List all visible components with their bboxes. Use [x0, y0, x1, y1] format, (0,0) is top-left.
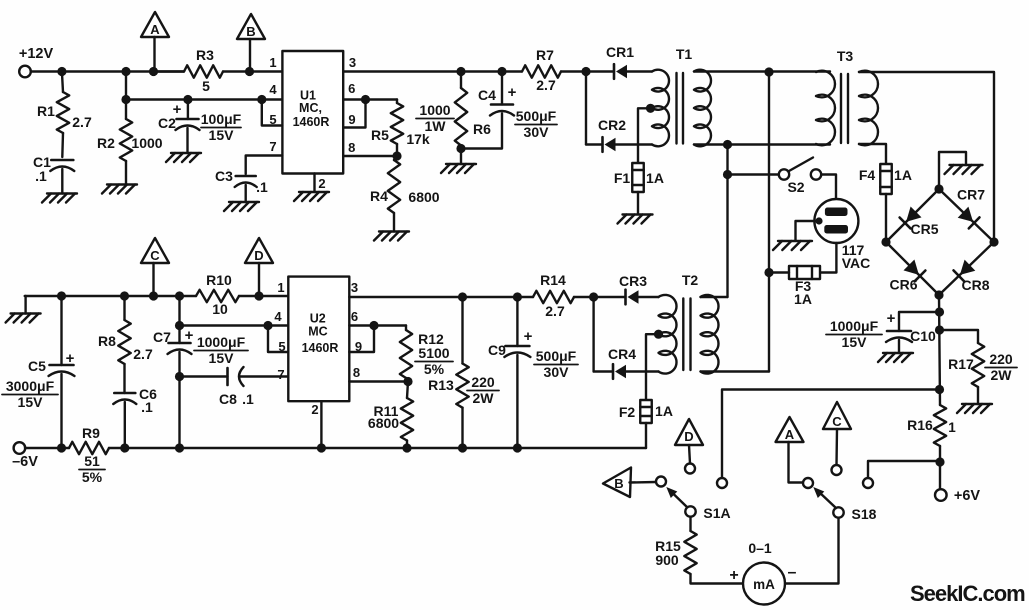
- connector C bottom: [823, 402, 851, 465]
- svg-text:–6V: –6V: [12, 454, 38, 470]
- fuse F1 1A: [614, 163, 664, 214]
- svg-text:5%: 5%: [424, 361, 445, 377]
- node A: [149, 67, 158, 76]
- svg-text:2.7: 2.7: [545, 303, 565, 319]
- U1 pin 3 label: [349, 55, 356, 70]
- node C8 tee: [175, 372, 184, 381]
- connector A bottom: [776, 417, 804, 483]
- svg-text:2.7: 2.7: [72, 114, 92, 130]
- capacitor C7: [153, 327, 248, 448]
- wire pin6: [343, 98, 397, 100]
- meter mA 0-1: [729, 540, 796, 605]
- svg-text:1000: 1000: [131, 135, 162, 151]
- S18 throw C: [832, 465, 842, 475]
- svg-text:1A: 1A: [655, 403, 673, 419]
- diode CR8: [954, 260, 990, 293]
- ground top-left lower: [6, 296, 41, 323]
- svg-text:+: +: [185, 327, 194, 344]
- node C4 top: [497, 67, 506, 76]
- node C2: [183, 95, 192, 104]
- capacitor C8: [219, 367, 288, 407]
- U1 pin 9 loop: [343, 100, 365, 128]
- svg-text:R7: R7: [536, 47, 554, 63]
- U2 pin 7 label: [277, 367, 284, 382]
- node top rail tee: [764, 67, 773, 76]
- svg-text:A: A: [785, 427, 795, 442]
- svg-text:6: 6: [348, 81, 355, 96]
- svg-text:C3: C3: [215, 168, 233, 184]
- S1A wiper: [666, 487, 689, 509]
- svg-text:5: 5: [269, 112, 276, 127]
- 117 VAC plug: [814, 199, 870, 271]
- svg-text:–: –: [788, 564, 797, 581]
- U1 pin 1 label: [269, 55, 276, 70]
- U1 pin 5 loop: [257, 95, 282, 127]
- svg-text:5: 5: [202, 78, 210, 94]
- svg-text:2.7: 2.7: [133, 346, 153, 362]
- svg-text:51: 51: [84, 453, 100, 469]
- svg-text:.1: .1: [35, 168, 47, 184]
- connector B bottom: [603, 468, 656, 498]
- svg-text:220: 220: [471, 374, 495, 390]
- svg-text:1460R: 1460R: [293, 115, 330, 129]
- transformer T2 secondary: [701, 295, 770, 374]
- diode CR4: [594, 346, 659, 379]
- node C10 tee: [935, 307, 944, 316]
- svg-text:1A: 1A: [894, 167, 912, 183]
- svg-text:CR6: CR6: [889, 277, 917, 293]
- svg-text:+: +: [508, 84, 517, 101]
- transformer T3 core: [841, 74, 848, 143]
- wire bridge bottom column: [939, 295, 940, 462]
- wire lower pin7: [180, 375, 228, 377]
- U1 pin 8 label: [348, 140, 355, 155]
- capacitor C5: [2, 296, 75, 448]
- resistor R8: [98, 296, 153, 364]
- wire T3 sec bottom to F4: [859, 144, 886, 164]
- node T2 tap: [646, 330, 663, 400]
- svg-text:+: +: [524, 328, 533, 345]
- U2 pin 3 label: [351, 280, 358, 295]
- svg-text:9: 9: [355, 339, 362, 354]
- transformer T3 primary: [816, 48, 853, 145]
- resistor R17: [940, 330, 1018, 404]
- transformer T1 core: [677, 73, 684, 144]
- svg-text:1000: 1000: [419, 102, 450, 118]
- svg-text:10: 10: [212, 301, 228, 317]
- svg-text:C: C: [150, 248, 160, 263]
- node C9 top: [513, 292, 522, 301]
- node R6 bottom: [456, 144, 465, 153]
- svg-text:2W: 2W: [991, 367, 1013, 383]
- svg-text:R10: R10: [206, 272, 232, 288]
- svg-text:D: D: [254, 248, 263, 263]
- node long wire tee: [935, 385, 944, 394]
- resistor R15: [655, 517, 743, 584]
- svg-text:+12V: +12V: [19, 46, 54, 62]
- svg-text:R6: R6: [473, 121, 491, 137]
- node R2 top: [121, 67, 130, 76]
- svg-text:C9: C9: [488, 342, 506, 358]
- svg-text:1: 1: [269, 55, 276, 70]
- ground 117VAC: [773, 241, 812, 250]
- wire lower pin6: [349, 324, 406, 326]
- node R17 tee: [935, 325, 944, 334]
- resistor R3: [157, 47, 223, 94]
- svg-text:4: 4: [269, 82, 277, 97]
- wire lower rail: [25, 295, 289, 297]
- S1A throw from bridge wire: [717, 478, 727, 488]
- node R7/CR1: [581, 67, 590, 76]
- svg-text:220: 220: [989, 351, 1013, 367]
- connector D bottom: [675, 419, 703, 464]
- svg-text:1000μF: 1000μF: [197, 334, 246, 350]
- ground R2: [102, 185, 137, 194]
- node bus C9: [513, 443, 522, 452]
- svg-text:2: 2: [318, 176, 325, 191]
- wire 117VAC riser: [768, 72, 770, 372]
- U2 pin 1 label: [277, 280, 284, 295]
- svg-text:1000μF: 1000μF: [830, 318, 879, 334]
- ground R6: [441, 164, 476, 173]
- wire CR4 drop: [592, 297, 594, 372]
- wire bridge top to ground: [939, 152, 966, 189]
- resistor R1: [37, 72, 92, 158]
- node bus R11: [402, 443, 411, 452]
- svg-text:15V: 15V: [209, 127, 235, 143]
- wire bottom bus: [25, 447, 646, 449]
- svg-text:3: 3: [349, 55, 356, 70]
- wire plug to F3: [820, 243, 836, 273]
- U1 pin 6 label: [348, 81, 355, 96]
- svg-text:D: D: [684, 429, 693, 444]
- ground bridge: [945, 165, 983, 174]
- svg-text:VAC: VAC: [842, 255, 871, 271]
- wire meter to S18: [785, 518, 839, 584]
- svg-text:+: +: [887, 310, 896, 327]
- svg-text:+: +: [66, 350, 75, 367]
- U1 pin 2: [315, 174, 326, 193]
- svg-text:R8: R8: [98, 333, 116, 349]
- svg-text:5100: 5100: [418, 345, 449, 361]
- node C: [149, 291, 158, 300]
- node bus C5: [57, 443, 66, 452]
- svg-text:500μF: 500μF: [516, 108, 557, 124]
- svg-text:S2: S2: [787, 179, 804, 195]
- capacitor C4: [461, 72, 557, 149]
- wire lower pin3 rail: [349, 296, 533, 298]
- svg-text:C7: C7: [153, 329, 171, 345]
- svg-text:1A: 1A: [794, 291, 812, 307]
- svg-text:R14: R14: [540, 272, 566, 288]
- diode CR7: [957, 187, 985, 229]
- svg-text:R13: R13: [428, 377, 454, 393]
- ground R4: [374, 232, 409, 241]
- diode CR3: [594, 273, 659, 304]
- resistor R10: [196, 272, 239, 317]
- svg-text:500μF: 500μF: [536, 348, 577, 364]
- svg-text:R1: R1: [37, 103, 55, 119]
- node +12V/R1: [57, 67, 66, 76]
- wire pin4 rail: [126, 98, 282, 100]
- ground C2: [166, 153, 201, 162]
- U2 pin 2: [311, 401, 321, 448]
- svg-text:MC,: MC,: [299, 101, 322, 115]
- svg-text:6800: 6800: [408, 189, 439, 205]
- svg-text:R2: R2: [97, 135, 115, 151]
- resistor R14: [533, 272, 594, 319]
- svg-text:T3: T3: [837, 48, 854, 64]
- ground U1 pin 2: [294, 192, 329, 201]
- node bus U2 pin2: [317, 443, 326, 452]
- fuse F3 1A: [769, 266, 820, 307]
- svg-text:CR2: CR2: [598, 117, 626, 133]
- svg-text:R3: R3: [196, 47, 214, 63]
- S1A throw B: [656, 477, 666, 487]
- wire C7 column: [178, 296, 180, 343]
- ground R17: [957, 404, 992, 413]
- resistor R2: [97, 119, 163, 185]
- node bridge top: [934, 184, 943, 193]
- node lower pin6: [369, 321, 378, 330]
- node C5 top: [57, 291, 66, 300]
- svg-text:R17: R17: [948, 356, 974, 372]
- ground F1: [618, 215, 653, 224]
- wire to S18 right throw: [868, 461, 940, 478]
- U2 pin 4 label: [274, 309, 282, 324]
- svg-text:CR7: CR7: [957, 187, 985, 203]
- svg-text:6800: 6800: [368, 415, 399, 431]
- svg-text:SeekIC.com: SeekIC.com: [910, 581, 1025, 606]
- node F3: [764, 268, 773, 277]
- transformer T2 core: [683, 299, 690, 371]
- S18 wiper: [813, 487, 836, 508]
- svg-text:0–1: 0–1: [748, 540, 772, 556]
- node D: [254, 291, 263, 300]
- ground C3: [224, 202, 259, 211]
- wire T1 sec to T2: [726, 145, 728, 298]
- svg-text:C: C: [832, 414, 842, 429]
- resistor R13: [428, 297, 499, 448]
- diode CR5: [900, 207, 939, 238]
- wire S2 to plug: [821, 175, 836, 200]
- transformer T2 primary: [659, 272, 699, 374]
- S18 throw A: [803, 478, 813, 488]
- transformer T3 secondary: [859, 71, 878, 146]
- svg-text:2W: 2W: [473, 390, 495, 406]
- node T1 tap: [638, 104, 655, 163]
- svg-text:MC: MC: [308, 325, 327, 339]
- diode CR2: [586, 117, 652, 152]
- svg-text:R4: R4: [370, 188, 388, 204]
- svg-text:.1: .1: [242, 391, 254, 407]
- node bridge bottom: [934, 290, 943, 299]
- svg-text:1460R: 1460R: [302, 341, 339, 355]
- U2 pin 6 label: [351, 309, 358, 324]
- wire R2 drop: [125, 72, 127, 120]
- svg-text:3000μF: 3000μF: [6, 378, 55, 394]
- node pin6: [361, 95, 370, 104]
- svg-text:1: 1: [277, 280, 284, 295]
- fuse F4 1A: [859, 164, 912, 242]
- -6V terminal: [12, 442, 38, 470]
- connector D: [245, 238, 273, 296]
- svg-text:U2: U2: [310, 312, 326, 326]
- S18 throw +6V: [863, 478, 873, 488]
- transformer T1 primary: [652, 46, 692, 146]
- node bus R13: [458, 443, 467, 452]
- fuse F2 1A: [619, 400, 673, 448]
- op-amp U2 MC1460R: [288, 277, 349, 402]
- resistor R6: [416, 72, 491, 165]
- resistor R11: [368, 382, 413, 449]
- svg-text:C5: C5: [28, 358, 46, 374]
- wire lower pin8: [349, 380, 408, 382]
- svg-text:B: B: [614, 476, 623, 491]
- svg-text:CR3: CR3: [619, 273, 647, 289]
- node R13 top: [458, 292, 467, 301]
- node lower pin8/R12/R11: [403, 377, 412, 386]
- svg-text:3: 3: [351, 280, 358, 295]
- capacitor C2: [158, 100, 242, 154]
- svg-text:8: 8: [353, 365, 360, 380]
- node R6 top: [456, 67, 465, 76]
- svg-text:2: 2: [311, 402, 318, 417]
- U2 pin 5 loop: [263, 321, 288, 354]
- +12V input terminal: [19, 46, 54, 77]
- capacitor C10: [826, 310, 940, 353]
- svg-text:C10: C10: [910, 328, 936, 344]
- U1 pin 7: [246, 139, 283, 174]
- svg-text:F4: F4: [859, 167, 876, 183]
- U1 pin 4 label: [269, 82, 277, 97]
- svg-text:900: 900: [655, 552, 679, 568]
- resistor R12: [400, 326, 453, 382]
- S18 pole: [833, 506, 876, 522]
- diode CR6: [889, 260, 925, 293]
- capacitor C6: [113, 364, 157, 448]
- svg-text:2.7: 2.7: [536, 77, 556, 93]
- watermark: [910, 581, 1025, 606]
- svg-text:5%: 5%: [82, 469, 103, 485]
- S1A pole: [685, 505, 730, 521]
- wire CR2 drop: [585, 72, 587, 145]
- resistor R5: [371, 100, 430, 157]
- wire pin3 rail: [343, 70, 522, 72]
- wire T3 sec top to right rail: [859, 72, 994, 242]
- node bus C7: [175, 443, 184, 452]
- capacitor C9: [488, 297, 578, 448]
- svg-text:7: 7: [269, 139, 276, 154]
- wire pin8: [343, 155, 397, 157]
- op-amp U1 MC1460R: [282, 51, 343, 174]
- node B: [245, 67, 254, 76]
- wire plug to ground: [796, 221, 820, 240]
- svg-text:7: 7: [277, 367, 284, 382]
- svg-text:CR8: CR8: [961, 277, 989, 293]
- svg-text:5: 5: [278, 339, 285, 354]
- wire +12V rail: [31, 70, 283, 72]
- node bus R8: [120, 443, 129, 452]
- node pin4 tee lower: [175, 321, 184, 330]
- node pin8/R5/R4: [392, 151, 401, 160]
- wire bridge arms: [886, 189, 994, 295]
- svg-text:1A: 1A: [646, 170, 664, 186]
- node R8 top: [120, 291, 129, 300]
- node R16 bottom: [935, 457, 944, 466]
- switch S2: [779, 158, 821, 196]
- svg-text:F2: F2: [619, 404, 636, 420]
- svg-text:A: A: [150, 22, 160, 37]
- node bridge right: [989, 237, 998, 246]
- wire lower pin4 rail: [180, 324, 289, 326]
- svg-text:4: 4: [274, 309, 282, 324]
- node pin4 rail tee: [121, 95, 130, 104]
- svg-text:R5: R5: [371, 127, 389, 143]
- svg-text:9: 9: [348, 112, 355, 127]
- svg-text:CR1: CR1: [606, 44, 634, 60]
- resistor R16: [907, 417, 956, 435]
- S1A throw D: [685, 464, 695, 474]
- connector B: [237, 14, 265, 72]
- wire to S2: [728, 173, 779, 175]
- svg-text:15V: 15V: [842, 334, 868, 350]
- svg-text:.1: .1: [141, 399, 153, 415]
- svg-text:30V: 30V: [524, 124, 550, 140]
- connector C: [141, 238, 169, 296]
- transformer T1 secondary: [694, 70, 830, 147]
- svg-text:C4: C4: [478, 87, 496, 103]
- resistor R9: [69, 425, 109, 485]
- ground C1: [42, 194, 77, 203]
- svg-text:30V: 30V: [544, 364, 570, 380]
- svg-text:8: 8: [348, 140, 355, 155]
- resistor R4: [370, 156, 440, 232]
- svg-text:S18: S18: [852, 506, 877, 522]
- svg-text:6: 6: [351, 309, 358, 324]
- svg-text:S1A: S1A: [703, 505, 730, 521]
- svg-text:.1: .1: [256, 179, 268, 195]
- wire to S1A: [722, 390, 940, 479]
- svg-text:CR5: CR5: [910, 221, 938, 237]
- +6V terminal: [935, 462, 980, 504]
- svg-text:F1: F1: [614, 170, 631, 186]
- svg-text:1: 1: [948, 420, 956, 435]
- node bridge left: [881, 237, 890, 246]
- svg-text:CR4: CR4: [608, 346, 636, 362]
- resistor R7: [522, 47, 586, 93]
- svg-text:100μF: 100μF: [201, 111, 242, 127]
- svg-text:+: +: [729, 567, 738, 584]
- svg-text:15V: 15V: [209, 350, 235, 366]
- svg-text:C8: C8: [219, 391, 237, 407]
- svg-text:15V: 15V: [18, 394, 44, 410]
- svg-text:R16: R16: [907, 417, 933, 433]
- svg-text:B: B: [246, 24, 255, 39]
- ground C10: [878, 353, 913, 362]
- capacitor C1: [33, 154, 74, 194]
- node S2 tee: [723, 170, 732, 179]
- U2 pin 8 label: [353, 365, 360, 380]
- svg-text:+6V: +6V: [954, 488, 981, 504]
- capacitor C3: [215, 168, 268, 202]
- svg-text:mA: mA: [753, 577, 775, 592]
- node R14/CR3: [589, 292, 598, 301]
- svg-text:1W: 1W: [425, 118, 447, 134]
- svg-text:R9: R9: [82, 425, 100, 441]
- svg-text:T2: T2: [682, 272, 699, 288]
- node C7 top: [175, 291, 184, 300]
